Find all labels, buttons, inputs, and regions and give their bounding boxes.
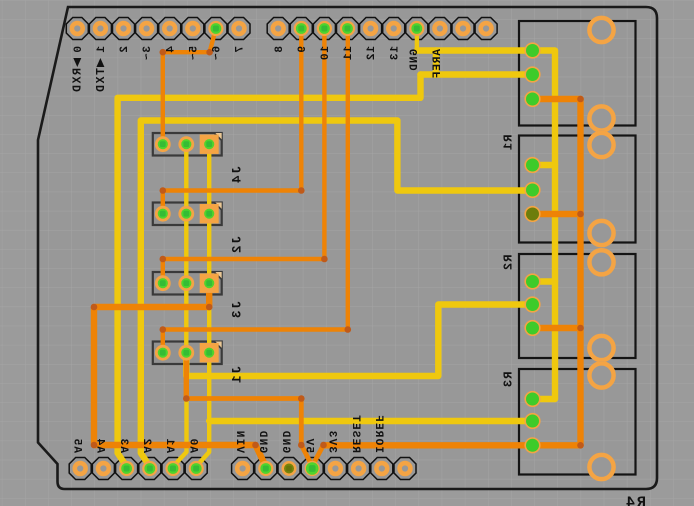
svg-text:A3: A3: [117, 437, 129, 453]
svg-text:R1: R1: [502, 135, 516, 152]
svg-text:J4: J4: [231, 166, 245, 185]
svg-text:9: 9: [297, 46, 309, 54]
svg-text:12: 12: [366, 46, 378, 61]
svg-text:7: 7: [235, 46, 247, 53]
svg-text:R4: R4: [624, 495, 646, 506]
svg-text:RESET: RESET: [349, 414, 361, 453]
svg-text:IOREF: IOREF: [372, 414, 384, 453]
svg-text:13: 13: [389, 46, 401, 61]
svg-text:GND: GND: [256, 430, 268, 453]
svg-text:3~: 3~: [142, 46, 154, 61]
svg-text:3V3: 3V3: [326, 430, 338, 453]
svg-text:J3: J3: [231, 301, 245, 320]
svg-text:VIN: VIN: [233, 430, 245, 453]
svg-text:RXD: RXD: [72, 68, 85, 94]
svg-text:2: 2: [119, 46, 131, 53]
svg-text:GND: GND: [409, 49, 421, 72]
svg-text:10: 10: [320, 46, 332, 61]
svg-text:11: 11: [343, 46, 355, 61]
svg-text:TXD: TXD: [95, 68, 108, 94]
svg-text:A2: A2: [140, 437, 152, 453]
svg-text:6~: 6~: [212, 46, 224, 61]
svg-text:5V: 5V: [302, 437, 314, 453]
svg-text:A5: A5: [70, 437, 82, 453]
svg-text:GND: GND: [279, 430, 291, 453]
svg-text:5~: 5~: [188, 46, 200, 61]
svg-text:A1: A1: [163, 437, 175, 453]
svg-text:J1: J1: [231, 366, 245, 385]
svg-text:R2: R2: [502, 255, 516, 272]
svg-text:A0: A0: [186, 437, 198, 453]
svg-text:J2: J2: [231, 236, 245, 255]
svg-text:8: 8: [274, 46, 286, 54]
svg-text:R3: R3: [502, 372, 516, 389]
svg-text:1: 1: [96, 46, 108, 53]
svg-text:4: 4: [165, 46, 177, 53]
svg-text:AREF: AREF: [432, 49, 444, 79]
svg-text:A4: A4: [94, 437, 106, 453]
svg-text:0: 0: [73, 46, 85, 53]
